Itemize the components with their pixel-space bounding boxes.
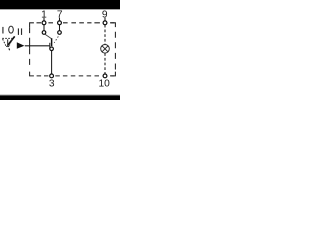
wire: terminal 7 down to fixed contact	[59, 25, 61, 31]
rocker lever (bold diagonal)	[8, 36, 15, 45]
terminal 1 circle	[42, 21, 46, 25]
position mark II	[18, 28, 19, 35]
wire: box right edge	[114, 32, 116, 70]
bottom letterbox bar	[0, 95, 120, 100]
wire: terminal 1 down to fixed contact	[43, 25, 45, 31]
terminal 10 circle	[103, 74, 107, 78]
switch lever solid (engaged to contact 1)	[45, 34, 51, 38]
terminal 3 circle	[50, 74, 54, 78]
wire: pivot down to terminal 3	[51, 51, 53, 74]
rocker trapezoid dashed outline	[2, 38, 12, 45]
wire: box bottom edge	[37, 75, 115, 77]
lamp E1 (circle with X)	[101, 45, 110, 54]
pin stub 7	[59, 18, 61, 21]
svg-text:3: 3	[49, 78, 55, 89]
wire: terminal 9 down to lamp	[104, 25, 106, 45]
mechanical link line	[25, 45, 50, 47]
junction: box corner bottom-left	[30, 72, 34, 76]
terminal 7 circle	[58, 21, 62, 25]
switch lever dashed (alternate position to contact 7)	[54, 36, 58, 42]
fixed contact circle (from 1)	[42, 31, 46, 35]
junction: box corner top-left	[30, 23, 34, 27]
rocker lever foot	[8, 45, 10, 51]
junction: box corner top-right	[111, 23, 115, 27]
position mark 0	[9, 26, 14, 33]
svg-text:10: 10	[99, 78, 111, 89]
pin stub 9	[104, 18, 106, 21]
wire: lamp down to terminal 10	[104, 53, 106, 74]
top letterbox bar	[0, 0, 120, 9]
actuation arrowhead	[17, 42, 25, 49]
wire: box left edge	[29, 27, 31, 65]
position mark I	[2, 27, 3, 34]
mechanical coupling tick	[49, 43, 50, 49]
switch movable arm (bold)	[51, 38, 52, 46]
rocker inner pointer line	[7, 39, 9, 46]
rocker bottom tick	[6, 45, 9, 47]
fixed contact circle (from 7)	[58, 31, 62, 35]
terminal 9 circle	[103, 21, 107, 25]
wire: box left edge segment at link crossing	[29, 44, 31, 49]
wire: box top edge	[37, 22, 115, 24]
junction: box corner bottom-right	[111, 72, 115, 76]
pin stub 1	[43, 18, 45, 21]
pivot contact circle	[50, 47, 54, 51]
dashed enclosure box	[30, 23, 116, 76]
